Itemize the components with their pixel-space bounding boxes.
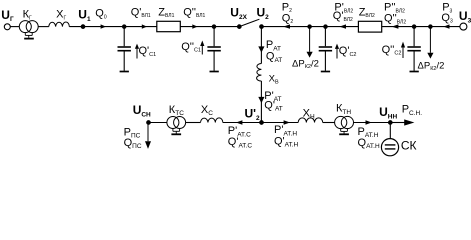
svg-text:XГ: XГ bbox=[56, 8, 66, 21]
svg-text:Q2: Q2 bbox=[282, 12, 294, 25]
svg-text:U2: U2 bbox=[257, 6, 270, 22]
terminal U_3 bbox=[460, 23, 467, 30]
svg-text:Q0: Q0 bbox=[95, 8, 107, 21]
wire bbox=[390, 122, 405, 124]
node U_2 bbox=[260, 25, 264, 29]
inductor X_Н bbox=[298, 118, 323, 123]
terminal U_Г bbox=[4, 24, 10, 30]
node U_1 bbox=[81, 25, 85, 29]
svg-text:Q''ВЛ2: Q''ВЛ2 bbox=[384, 13, 406, 26]
wire bbox=[186, 122, 201, 124]
wire bbox=[149, 122, 167, 124]
svg-text:ZВЛ1: ZВЛ1 bbox=[158, 6, 174, 19]
wire bbox=[262, 26, 359, 28]
svg-text:UНН: UНН bbox=[379, 105, 397, 121]
inductor X_С bbox=[201, 118, 223, 123]
svg-text:QАТ: QАТ bbox=[266, 51, 282, 64]
node U_СН bbox=[147, 121, 151, 125]
wire bbox=[69, 26, 157, 28]
svg-text:ZВЛ2: ZВЛ2 bbox=[359, 6, 375, 19]
svg-text:КТС: КТС bbox=[169, 104, 184, 117]
wire bbox=[223, 122, 262, 124]
svg-text:UГ: UГ bbox=[1, 8, 14, 23]
node junction C1a bbox=[123, 25, 126, 28]
arrow Q''_ВЛ1 bbox=[192, 24, 197, 28]
arrow P'_АТ/Q'_АТ (down) bbox=[258, 97, 264, 103]
svg-text:Q'С1: Q'С1 bbox=[139, 45, 157, 58]
transformer K_Г bbox=[19, 21, 38, 33]
arrow P''_ВЛ2 (left) bbox=[392, 24, 399, 28]
switch blade (open breaker U_2X–U_2) bbox=[239, 19, 259, 26]
node junction C1b bbox=[212, 25, 215, 28]
svg-text:Q''С1: Q''С1 bbox=[181, 41, 201, 54]
arrow P'_АТ.Н (right) bbox=[284, 120, 290, 124]
svg-text:ΔPК2/2: ΔPК2/2 bbox=[292, 58, 319, 70]
arrow Q'_C1 (up) bbox=[135, 44, 139, 59]
ground (K_Г neutral) bbox=[24, 32, 34, 38]
ground (K_ТС neutral) bbox=[171, 128, 181, 134]
svg-text:U'2: U'2 bbox=[245, 106, 261, 122]
arrow Q'_ВЛ2 (left) bbox=[339, 24, 346, 28]
arrow Q'_ВЛ1 bbox=[142, 24, 147, 28]
svg-text:U3: U3 bbox=[459, 9, 471, 25]
wire bbox=[260, 81, 262, 123]
arrow P_ПС/Q_ПС load (down) bbox=[145, 124, 151, 149]
svg-text:Q'С2: Q'С2 bbox=[339, 45, 357, 58]
wire bbox=[354, 122, 391, 124]
svg-text:XН: XН bbox=[303, 107, 315, 120]
capacitor C2 (line charging, left half) bbox=[319, 27, 332, 72]
svg-text:Q''ВЛ1: Q''ВЛ1 bbox=[183, 6, 205, 19]
arrow P_3/Q_3 (left) bbox=[443, 24, 449, 28]
wire bbox=[180, 26, 239, 28]
arrow Q'_C2 (up) bbox=[335, 44, 339, 59]
arrow P_С.Н (right, bus end) bbox=[404, 119, 414, 125]
svg-text:СК: СК bbox=[401, 139, 417, 153]
node junction ΔP_К2 left bbox=[308, 25, 311, 28]
arrow P_2/Q_2 (left) bbox=[283, 24, 290, 28]
wire (autotransformer series branch) bbox=[260, 27, 262, 64]
svg-text:PС.Н.: PС.Н. bbox=[402, 104, 423, 117]
arrow P_АТ.Н (right) bbox=[366, 120, 372, 124]
impedance Z_ВЛ1 bbox=[157, 21, 181, 31]
svg-text:U1: U1 bbox=[78, 8, 91, 24]
node junction C2b bbox=[412, 25, 415, 28]
capacitor C1 (line charging, right half) bbox=[207, 27, 220, 72]
transformer K_ТС bbox=[167, 117, 186, 129]
arrow P_АТ/Q_АТ (down) bbox=[258, 46, 264, 52]
svg-text:UСН: UСН bbox=[133, 103, 151, 119]
svg-text:КГ: КГ bbox=[23, 8, 32, 21]
wire bbox=[262, 122, 299, 124]
wire bbox=[10, 26, 19, 28]
wire bbox=[323, 122, 335, 124]
arrow Q''_C2 (up) bbox=[401, 42, 405, 58]
inductor X_В bbox=[257, 64, 262, 82]
svg-text:XВ: XВ bbox=[269, 73, 279, 85]
impedance Z_ВЛ2 bbox=[358, 21, 381, 32]
node U'_2 bbox=[260, 121, 264, 125]
wire bbox=[382, 26, 460, 28]
capacitor C1 (line charging, left half) bbox=[118, 27, 131, 72]
svg-text:ΔPК2/2: ΔPК2/2 bbox=[418, 60, 445, 72]
synchronous condenser СК bbox=[381, 139, 398, 156]
node U_НН bbox=[389, 121, 393, 125]
arrow Q''_C1 (up) bbox=[200, 41, 204, 55]
inductor X_Г bbox=[49, 22, 70, 27]
wire bbox=[38, 26, 49, 28]
transformer K_ТН bbox=[335, 116, 354, 128]
arrow ΔP_К2/2 (down, right) bbox=[427, 27, 433, 59]
ground (K_ТН neutral) bbox=[339, 128, 349, 134]
svg-text:U2X: U2X bbox=[230, 6, 247, 22]
arrow P'_АТ.С (left) bbox=[236, 120, 242, 124]
svg-text:Q''С2: Q''С2 bbox=[382, 44, 402, 57]
arrow Q_0 bbox=[101, 24, 106, 28]
node junction ΔP_К2 right bbox=[429, 25, 432, 28]
wire (to synchronous condenser) bbox=[389, 123, 391, 139]
svg-text:КТН: КТН bbox=[336, 103, 351, 116]
node U_2X bbox=[238, 25, 242, 29]
arrow ΔP_К2/2 (down, left) bbox=[307, 27, 313, 58]
svg-text:Q'ВЛ1: Q'ВЛ1 bbox=[131, 6, 151, 19]
node junction C2a bbox=[324, 25, 327, 28]
capacitor C2 (line charging, right half) bbox=[407, 27, 420, 72]
svg-text:XС: XС bbox=[201, 104, 213, 117]
